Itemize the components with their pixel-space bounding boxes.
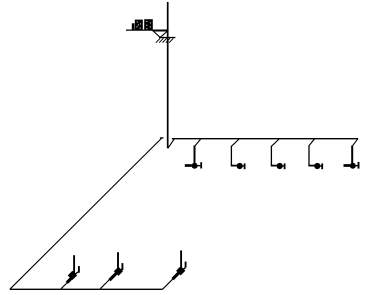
- branch 3 jog: [272, 139, 280, 147]
- riser to header jog: [168, 139, 174, 149]
- tap F8: [173, 250, 186, 279]
- main diagonal pipe: [10, 138, 162, 289]
- tap F1: [185, 162, 201, 169]
- bottom branch pipe 2: [100, 279, 110, 289]
- ground line: [159, 37, 175, 39]
- branch 2 drop pipe: [230, 146, 232, 166]
- branch 3 drop pipe: [270, 146, 272, 166]
- ground hatch: [156, 38, 174, 43]
- branch 4 jog: [309, 139, 315, 146]
- tap F5: [344, 162, 359, 169]
- tap F3: [271, 163, 285, 169]
- branch 1 jog: [195, 139, 201, 146]
- tap F7: [110, 252, 123, 280]
- branch 2 jog: [232, 139, 240, 147]
- elevation datum line: [126, 29, 168, 31]
- top header pipe: [172, 138, 358, 140]
- bottom branch pipe 3: [163, 278, 174, 289]
- bottom header pipe: [10, 288, 163, 290]
- elevation label text blob: [132, 19, 153, 30]
- tap F4: [308, 163, 322, 169]
- branch 5 jog: [352, 139, 358, 146]
- header stub at diagonal: [160, 137, 164, 139]
- bottom branch pipe 1: [61, 282, 68, 289]
- main riser pipe: [167, 2, 169, 148]
- elevation triangle: [153, 31, 167, 37]
- branch 5 drop pipe: [351, 146, 353, 166]
- tap F2: [231, 163, 245, 169]
- tap F6: [67, 255, 79, 283]
- branch 1 drop pipe: [194, 146, 196, 166]
- branch 4 drop pipe: [308, 145, 310, 165]
